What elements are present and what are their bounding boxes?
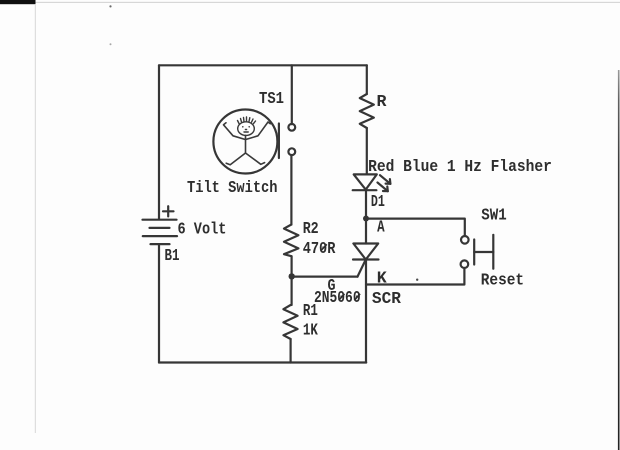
- SW1 contact bar: [473, 240, 475, 265]
- svg-text:2N5060: 2N5060: [314, 288, 361, 307]
- resistor R zigzag: [360, 94, 374, 128]
- TS1 top contact circle: [288, 124, 295, 131]
- SCR triangle: [353, 244, 378, 260]
- svg-text:6 Volt: 6 Volt: [178, 220, 227, 239]
- SW1 button cap: [492, 235, 494, 269]
- stick figure right arm: [246, 122, 271, 140]
- stick figure head: [238, 122, 255, 136]
- wire right vertical top to resistor R: [366, 65, 368, 94]
- wire R to LED D1: [366, 128, 368, 174]
- stick figure inside tilt switch: [238, 117, 256, 135]
- svg-text:SW1: SW1: [481, 205, 506, 224]
- svg-text:R2: R2: [303, 219, 319, 238]
- svg-text:1K: 1K: [303, 320, 318, 339]
- scan artifact black bar top-left: [0, 0, 36, 4]
- wire gate horizontal: [292, 276, 358, 278]
- svg-text:B1: B1: [165, 246, 180, 265]
- svg-text:A: A: [377, 218, 385, 237]
- SCR cathode bar: [353, 258, 379, 260]
- wire TS1 bottom contact to R2: [290, 155, 292, 225]
- svg-text:Reset: Reset: [481, 271, 524, 290]
- svg-text:K: K: [377, 268, 387, 287]
- svg-text:D1: D1: [371, 192, 385, 211]
- LED D1 light arrow 1: [380, 175, 390, 184]
- scan artifact thin top line: [36, 2, 620, 3]
- resistor R2 zigzag: [284, 225, 298, 257]
- wire R2 to junction: [291, 256, 293, 305]
- stick figure face: [242, 126, 244, 128]
- stray speck near K wire: [416, 279, 418, 281]
- svg-text:TS1: TS1: [259, 89, 284, 108]
- battery B1 plate 3 long: [143, 235, 177, 237]
- wire SW1 bottom to K: [366, 268, 464, 285]
- wire top horizontal: [159, 64, 367, 66]
- LED D1 triangle: [354, 174, 377, 189]
- wire left vertical (battery - lead): [158, 244, 160, 362]
- svg-text:SCR: SCR: [372, 289, 401, 308]
- stick figure hair: [238, 121, 240, 124]
- svg-text:R: R: [377, 92, 387, 111]
- slashed zero of 470R: [321, 244, 327, 251]
- battery B1 plate 2 short: [150, 227, 170, 229]
- LED D1 cathode bar: [353, 189, 377, 191]
- slashed zeros of 2N5060: [339, 294, 345, 301]
- wire node A to SW1: [366, 219, 465, 236]
- svg-text:470R: 470R: [303, 239, 336, 258]
- SW1 plunger: [474, 251, 493, 253]
- wire R1 to bottom: [290, 339, 292, 363]
- tilt switch circle: [213, 110, 277, 174]
- battery plus sign: [163, 210, 174, 212]
- wire SCR cathode down to bottom: [365, 260, 367, 363]
- wire left vertical (battery + lead): [158, 65, 160, 219]
- tilt switch side bar: [278, 124, 280, 159]
- svg-text:Tilt Switch: Tilt Switch: [187, 178, 278, 197]
- scan artifact left page edge line: [35, 4, 36, 433]
- TS1 bottom contact circle: [288, 148, 295, 155]
- junction dot node A: [363, 216, 369, 222]
- stick figure body: [245, 135, 247, 153]
- stick figure left arm: [224, 123, 246, 140]
- stick figure right leg: [246, 153, 265, 164]
- SCR gate diagonal: [358, 260, 366, 277]
- wire TS1 branch from top: [291, 65, 293, 124]
- scan speck upper: [109, 5, 111, 7]
- resistor R1 zigzag: [283, 305, 297, 339]
- battery B1 plate 4 short: [151, 243, 170, 245]
- SW1 bottom contact circle: [461, 260, 469, 268]
- wire LED to node A: [365, 190, 367, 218]
- wire bottom horizontal: [159, 361, 366, 363]
- stick figure left leg: [226, 153, 245, 165]
- LED D1 light arrow 2: [378, 183, 388, 192]
- wire node A to SCR: [365, 219, 367, 244]
- battery B1 plate 1 long: [143, 219, 177, 221]
- scan speck lower: [110, 43, 112, 45]
- junction dot R2/R1/gate: [289, 273, 295, 279]
- scan artifact right dark edge line: [0, 0, 1, 1]
- SW1 top contact circle: [461, 236, 469, 244]
- svg-text:Red Blue 1 Hz Flasher: Red Blue 1 Hz Flasher: [368, 157, 552, 176]
